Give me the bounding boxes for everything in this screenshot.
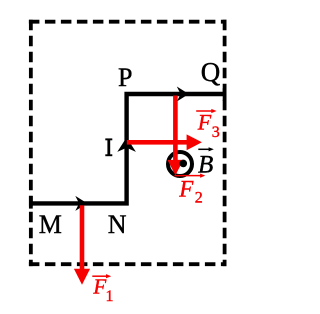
- vector arrow over B: [198, 147, 214, 151]
- wire end tick at M: [29, 196, 33, 209]
- dashed field region boundary: [29, 20, 227, 266]
- force arrow F2: [167, 96, 183, 176]
- current arrow on P-Q: [177, 87, 189, 102]
- svg-text:N: N: [108, 210, 127, 239]
- svg-text:F: F: [197, 109, 212, 134]
- current arrow on M-N: [75, 196, 87, 211]
- label F3: [197, 109, 220, 141]
- vector arrow over F3: [196, 109, 216, 113]
- svg-text:Q: Q: [201, 57, 221, 87]
- field symbol B dot: [180, 160, 188, 168]
- svg-text:F: F: [178, 176, 194, 201]
- svg-text:3: 3: [212, 124, 220, 141]
- current label I: [105, 138, 112, 156]
- current arrow on N-P: [117, 137, 136, 152]
- svg-text:M: M: [39, 210, 62, 239]
- svg-text:2: 2: [195, 189, 203, 206]
- wire end tick at Q: [223, 88, 227, 101]
- force arrow F1: [74, 205, 90, 284]
- svg-text:P: P: [118, 63, 132, 92]
- label F2: [178, 176, 203, 206]
- label F1: [92, 275, 113, 305]
- wire M-N-P-Q: [31, 94, 225, 203]
- vector arrow over F2: [175, 174, 206, 178]
- svg-text:F: F: [92, 275, 106, 299]
- field symbol B ring (out of page): [168, 152, 192, 176]
- force arrow F3: [127, 134, 202, 150]
- vector arrow over F1: [92, 274, 111, 278]
- svg-text:1: 1: [106, 288, 114, 305]
